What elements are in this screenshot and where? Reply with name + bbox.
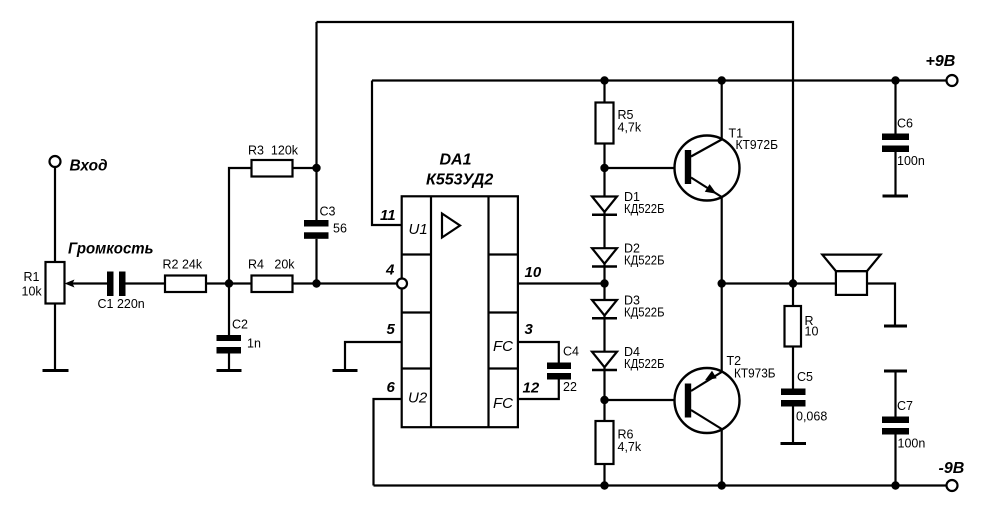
wire pin 5 to ground xyxy=(345,342,402,370)
svg-text:-9В: -9В xyxy=(939,460,965,477)
node -9V terminal xyxy=(947,480,958,491)
wire pin 11 to +9V rail xyxy=(372,81,402,226)
svg-text:U2: U2 xyxy=(408,390,428,407)
svg-text:R2 24k: R2 24k xyxy=(163,257,203,271)
svg-text:КД522Б: КД522Б xyxy=(624,357,665,371)
ground under C5 xyxy=(781,442,807,445)
svg-text:КТ973Б: КТ973Б xyxy=(734,367,776,381)
wire R1 to ground xyxy=(54,304,56,371)
resistor R1 (potentiometer body) xyxy=(46,262,65,304)
svg-text:C4: C4 xyxy=(563,345,579,359)
svg-text:R4 20k: R4 20k xyxy=(248,257,295,271)
svg-text:1n: 1n xyxy=(247,337,261,351)
svg-text:C1 220n: C1 220n xyxy=(98,297,145,311)
node C junction R4/C3/pin4 xyxy=(312,279,320,287)
wire wiper arrow of R1 xyxy=(70,282,107,284)
node feedback/zobel junction xyxy=(789,279,797,287)
svg-text:DA1: DA1 xyxy=(440,152,472,169)
capacitor C6 xyxy=(882,134,909,141)
node T1 collector rail xyxy=(718,76,726,84)
wire R3 to node B xyxy=(293,167,317,169)
diode D1 xyxy=(592,197,617,213)
svg-text:Громкость: Громкость xyxy=(68,241,154,258)
capacitor C3 xyxy=(304,220,329,227)
wire node A up to R3 xyxy=(229,168,252,284)
svg-text:56: 56 xyxy=(333,222,347,236)
wire R4 to node C xyxy=(293,282,317,284)
wire node A to R4 xyxy=(229,282,252,284)
wire speaker to ground xyxy=(867,284,895,326)
svg-text:4,7k: 4,7k xyxy=(618,121,642,135)
wire +9V rail xyxy=(372,79,947,81)
wire node to R xyxy=(792,284,794,307)
svg-text:+9В: +9В xyxy=(926,53,956,70)
ground at pin 5 xyxy=(333,369,358,372)
svg-text:R1: R1 xyxy=(24,270,40,284)
svg-text:C7: C7 xyxy=(897,399,913,413)
wire node B up to top rail and down to C3 xyxy=(315,22,317,220)
capacitor C5 xyxy=(781,389,806,396)
svg-text:U1: U1 xyxy=(409,221,428,238)
svg-text:R3 120k: R3 120k xyxy=(248,143,299,157)
svg-text:10: 10 xyxy=(805,325,819,339)
resistor R6 xyxy=(603,400,605,421)
svg-text:10k: 10k xyxy=(22,285,43,299)
op-amp triangle symbol inside DA1 xyxy=(442,214,460,238)
wire C4 to pin 12 xyxy=(518,380,559,400)
svg-text:C6: C6 xyxy=(897,117,913,131)
wire T2 collector to -9V rail xyxy=(721,429,723,486)
svg-text:КД522Б: КД522Б xyxy=(624,305,665,319)
wire C1 to R2 xyxy=(126,282,166,284)
wire rail to R5 xyxy=(603,81,605,103)
wire T1 emitter down to output node xyxy=(721,197,723,284)
svg-text:22: 22 xyxy=(563,380,577,394)
svg-text:0,068: 0,068 xyxy=(796,410,827,424)
pin 4 inverting input circle xyxy=(397,279,407,289)
svg-text:C3: C3 xyxy=(320,205,336,219)
wire R5 to node D xyxy=(603,144,605,169)
resistor R4 xyxy=(252,276,293,293)
svg-text:11: 11 xyxy=(380,207,396,224)
node output to diode chain xyxy=(600,279,608,287)
svg-text:100n: 100n xyxy=(897,154,925,168)
svg-text:4: 4 xyxy=(385,262,395,279)
svg-text:FC: FC xyxy=(493,338,513,355)
svg-text:КД522Б: КД522Б xyxy=(624,254,665,268)
wire pin 10 output to diode chain node xyxy=(518,282,605,284)
svg-text:6: 6 xyxy=(387,379,396,396)
wire C5 to ground xyxy=(792,407,794,444)
node D junction R5/D1/T1 base xyxy=(600,164,608,172)
diode D4 xyxy=(592,352,617,368)
capacitor C2 xyxy=(217,335,242,341)
wire T1 collector to +9V rail xyxy=(721,81,723,140)
node C6/+9V rail xyxy=(891,76,899,84)
node R6/-9V rail xyxy=(600,481,608,489)
wire node E to T2 base xyxy=(605,399,686,401)
speaker xyxy=(836,271,867,295)
node C7/-9V rail xyxy=(891,481,899,489)
node T2 collector rail xyxy=(718,481,726,489)
diode D3 xyxy=(592,300,617,316)
ground under R1 xyxy=(43,369,69,372)
wire C2 to ground xyxy=(228,354,230,371)
svg-text:4,7k: 4,7k xyxy=(618,440,642,454)
op-amp DA1 body xyxy=(402,196,518,427)
node T1/T2 output junction xyxy=(718,279,726,287)
svg-text:12: 12 xyxy=(523,379,540,396)
capacitor C7 xyxy=(882,417,909,424)
wire R to C5 xyxy=(792,347,794,389)
wire node D to T1 base xyxy=(605,167,686,169)
svg-text:КТ972Б: КТ972Б xyxy=(736,138,779,152)
svg-text:5: 5 xyxy=(387,321,396,338)
ground under C2 xyxy=(217,369,242,372)
node input terminal xyxy=(50,156,61,167)
svg-text:К553УД2: К553УД2 xyxy=(426,172,493,189)
resistor R3 xyxy=(252,160,293,177)
transistor T2 xyxy=(675,368,740,433)
svg-text:КД522Б: КД522Б xyxy=(624,202,665,216)
wire R2 to node A xyxy=(206,282,229,284)
wire pin 6 to -9V rail xyxy=(374,399,402,486)
svg-text:C5: C5 xyxy=(797,370,813,384)
wire -9V bottom rail xyxy=(374,484,947,486)
ground under speaker xyxy=(884,325,907,328)
wire node A down to C2 xyxy=(228,284,230,336)
capacitor C1 xyxy=(107,272,114,297)
node +9V/R5 junction xyxy=(600,76,608,84)
svg-text:3: 3 xyxy=(525,321,534,338)
wire C3 down to node C xyxy=(315,239,317,284)
wire ground to C7 xyxy=(894,371,896,417)
wire feedback top rail from C3 node to output node xyxy=(317,22,794,284)
node B junction R3/C3/top rail xyxy=(312,164,320,172)
capacitor C4 xyxy=(547,363,571,370)
wire node C to pin 4 of DA1 xyxy=(317,282,398,284)
wire pin 3 to C4 xyxy=(518,342,559,363)
wire rail to C6 xyxy=(894,81,896,134)
svg-text:10: 10 xyxy=(525,264,542,281)
node +9V terminal xyxy=(947,75,958,86)
wire C7 to -9V rail xyxy=(894,435,896,486)
svg-text:FC: FC xyxy=(493,395,513,412)
diode D2 xyxy=(592,248,617,264)
wire C6 to ground xyxy=(894,152,896,196)
resistor R xyxy=(785,306,802,347)
wire input to R1 xyxy=(54,167,56,262)
wire T2 emitter up to output node xyxy=(721,284,723,373)
transistor T1 xyxy=(675,136,740,201)
node E junction D4/R6/T2 base xyxy=(600,396,608,404)
svg-text:C2: C2 xyxy=(232,318,248,332)
svg-text:100n: 100n xyxy=(898,437,926,451)
wire R6 to -9V rail xyxy=(603,464,605,486)
ground above C7 xyxy=(884,370,907,373)
resistor R5 xyxy=(596,103,614,144)
resistor R2 xyxy=(165,276,206,293)
wire diode chain xyxy=(603,168,605,400)
ground under C6 xyxy=(883,195,909,198)
node A junction R2/R3/R4/C2 xyxy=(225,279,233,287)
wire output node to speaker xyxy=(722,282,836,284)
svg-text:Вход: Вход xyxy=(70,157,108,174)
